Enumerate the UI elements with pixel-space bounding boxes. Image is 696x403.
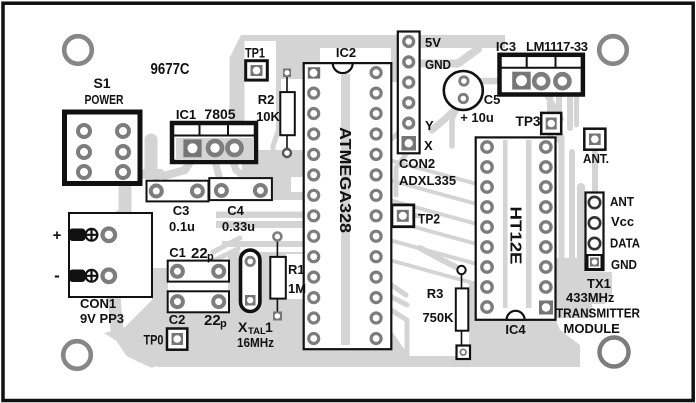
TX1 pad Vcc [589, 217, 600, 228]
wire IC2 to IC4 bundle 2 [382, 178, 484, 206]
wire descending left of R2 [273, 66, 279, 160]
svg-text:433MHz: 433MHz [566, 290, 615, 305]
wire CON2 GND [419, 49, 478, 64]
wire TP3 down [547, 133, 551, 147]
svg-text:R1: R1 [288, 262, 305, 277]
svg-text:Y: Y [425, 118, 434, 133]
wire IC3 diag [547, 95, 561, 119]
svg-text:S1: S1 [93, 75, 110, 91]
svg-text:7805: 7805 [204, 106, 235, 122]
wire into C3 left pad [153, 172, 159, 185]
wire IC3 pad down 4 [574, 95, 579, 125]
resistor R2 [280, 69, 295, 158]
svg-text:+ 10u: + 10u [460, 110, 494, 125]
CON1 crosshair pad 2 [86, 270, 98, 282]
IC1 inner lines [172, 123, 256, 136]
svg-text:-: - [54, 266, 60, 285]
wire R2 bottom to plane [284, 150, 291, 163]
IC1 pad1 square [183, 139, 201, 157]
wire IC3 pad down 3 [567, 95, 573, 128]
wire IC2 bottom bundle to plane 1 [384, 280, 406, 295]
svg-text:MODULE: MODULE [564, 321, 621, 336]
plane bottom band left [104, 268, 303, 367]
CON1 terminal tab + [69, 229, 86, 242]
svg-text:IC4: IC4 [505, 322, 526, 337]
svg-text:10K: 10K [256, 109, 280, 124]
C5 pads [460, 77, 468, 85]
IC4 bottom right square pad [539, 301, 553, 315]
wire IC2 bottom bundle to plane 2 [384, 293, 407, 305]
wire ANT pad to TX1 [592, 150, 598, 196]
svg-text:TP2: TP2 [418, 211, 440, 227]
wire IC2 to IC4 bundle 3 [382, 198, 484, 226]
wire S1 to C1 [125, 210, 143, 266]
wire web to C3 left pad [145, 169, 160, 179]
TX1 pad ANT [589, 197, 600, 208]
wire HT12E right verticals 1 [559, 137, 565, 258]
svg-text:GND: GND [425, 57, 451, 72]
svg-text:IC2: IC2 [336, 45, 356, 60]
capacitor C3 body [147, 181, 209, 202]
capacitor C5 body [444, 71, 483, 110]
wire IC1 pad1 down-left [164, 162, 190, 176]
wire IC1 pad2 to C4 left pad [215, 162, 221, 184]
svg-text:+: + [53, 227, 62, 244]
CON2 pads [404, 37, 414, 128]
wire C5 to IC3 pad1 [470, 78, 514, 85]
svg-text:ANT: ANT [610, 194, 634, 209]
svg-text:R3: R3 [427, 286, 444, 301]
wire band left of TX1 [577, 187, 585, 258]
plane central C [228, 252, 303, 318]
svg-text:p: p [207, 251, 214, 263]
plane stripe B1 [216, 212, 303, 219]
svg-text:1: 1 [265, 319, 273, 335]
plane column between R3 and IC4 [469, 281, 477, 367]
svg-text:1M: 1M [288, 281, 306, 296]
antenna pad ANT. [584, 129, 605, 150]
mounting hole bottom-left [63, 341, 91, 369]
svg-text:X: X [238, 319, 248, 335]
IC2 left pads [309, 88, 319, 343]
IC4 bottom notch [507, 311, 525, 320]
svg-text:C2: C2 [169, 312, 186, 327]
IC3 pad1 square [512, 72, 531, 90]
wire diag near XTAL top 1 [213, 238, 240, 252]
capacitor C1 body [168, 261, 229, 282]
plane column left of R2 [230, 35, 245, 162]
wire diag near XTAL top 2 [211, 249, 238, 262]
TX1 pad DATA [589, 238, 600, 249]
resistor R3 [456, 266, 470, 359]
wire C5 bottom down-left [432, 103, 462, 130]
svg-text:TP1: TP1 [245, 45, 265, 61]
wire IC2 to IC4 bundle 6 [382, 258, 484, 286]
XTAL1 top pad [246, 257, 254, 265]
plane under IC4 [476, 320, 580, 367]
CON1 terminal tab - [69, 270, 86, 283]
test point TP2 [392, 205, 414, 227]
wire TP2 horizontal [380, 213, 420, 218]
capacitor C2 body [168, 291, 229, 312]
IC2 right pads [371, 68, 381, 344]
svg-text:p: p [220, 318, 227, 330]
test point TP1 [246, 61, 268, 80]
svg-text:ATMEGA328: ATMEGA328 [336, 127, 353, 233]
mounting hole bottom-right [600, 338, 629, 367]
wire IC3 pad down 2 [556, 95, 562, 140]
IC2 pin1 square pad [308, 67, 320, 78]
IC2 notch [333, 63, 353, 73]
plane wedge right of IC2 [391, 330, 409, 367]
svg-text:C4: C4 [227, 203, 244, 218]
C2 pads [172, 296, 183, 307]
svg-text:IC3: IC3 [496, 39, 516, 54]
TX1 pad GND square [588, 255, 602, 269]
IC3 inner lines [500, 55, 583, 68]
svg-text:TX1: TX1 [587, 276, 611, 291]
wire IC2 bottom bundle to plane 3 [383, 305, 407, 355]
mounting hole top-right [599, 36, 627, 64]
wire bar left of IC1 [145, 140, 158, 171]
svg-text:9V PP3: 9V PP3 [80, 311, 124, 326]
wire CON2 X down to IC2 [396, 150, 409, 195]
white pocket right of C4 [291, 177, 303, 192]
wire IC2 to IC4 bundle 5 [382, 238, 484, 266]
plane stripe B3 [222, 241, 303, 247]
plane central A [242, 150, 303, 200]
svg-text:CON1: CON1 [80, 296, 116, 311]
CON1 crosshair pad 1 [86, 229, 98, 241]
wire R2 to IC2 pin1 [287, 69, 313, 75]
svg-text:POWER: POWER [85, 92, 124, 107]
IC1 pad2 [208, 141, 222, 155]
wire R3 top diag [420, 248, 458, 268]
svg-text:22: 22 [204, 312, 221, 329]
capacitor C4 body [209, 178, 272, 200]
svg-text:HT12E: HT12E [507, 207, 524, 265]
IC4 HT12E body [476, 137, 556, 319]
IC3 pad3 [555, 74, 569, 88]
switch S1 body [65, 112, 141, 184]
mounting hole top-left [64, 36, 92, 64]
plane blob behind TX1 labels [556, 258, 612, 318]
plane stripe B2 [216, 221, 303, 228]
connector CON1 body [69, 213, 152, 297]
C3 pads [151, 186, 162, 197]
crystal XTAL1 body [241, 250, 260, 311]
C1 pads [172, 266, 183, 277]
IC1 pad3 [228, 141, 242, 155]
wire HT12E right verticals 2 [569, 152, 575, 258]
svg-text:ANT.: ANT. [583, 151, 609, 166]
svg-text:16MHz: 16MHz [237, 335, 274, 350]
switch S1 pads [78, 125, 129, 178]
plane top band [241, 35, 505, 67]
svg-text:22: 22 [191, 245, 208, 262]
regulator IC1 body [172, 123, 256, 162]
IC4 left pads [482, 142, 492, 312]
IC3 pad2 [534, 74, 548, 88]
connector CON2 body [398, 32, 420, 154]
wire CON1 pad2 down [96, 276, 152, 361]
svg-text:X: X [424, 138, 433, 153]
wire IC2 to IC4 bundle 4 [382, 218, 484, 246]
IC2 body [304, 63, 392, 349]
IC1 inner plane [176, 138, 254, 160]
svg-text:TP3: TP3 [516, 113, 541, 129]
svg-text:LM1117-33: LM1117-33 [526, 39, 588, 54]
C4 pads [216, 185, 227, 196]
svg-text:C3: C3 [173, 203, 190, 218]
test point TP0 [167, 329, 187, 350]
wire IC2 to IC4 bundle 1 [382, 158, 484, 186]
svg-text:R2: R2 [258, 92, 275, 107]
white patch behind R1 labels [286, 254, 303, 299]
wire S1 to CON1 [98, 188, 125, 231]
wire C5 to HT12E vertical [452, 109, 457, 146]
regulator IC3 body [500, 55, 583, 95]
svg-text:CON2: CON2 [399, 156, 435, 171]
svg-text:5V: 5V [425, 35, 441, 50]
svg-text:TRANSMITTER: TRANSMITTER [556, 306, 641, 321]
wire stripes inside IC4 [503, 140, 508, 308]
svg-text:0.33u: 0.33u [222, 219, 255, 234]
svg-text:ADXL335: ADXL335 [399, 173, 456, 188]
svg-text:DATA: DATA [610, 236, 641, 251]
svg-text:TP0: TP0 [144, 332, 164, 348]
svg-text:GND: GND [611, 257, 637, 272]
CON2 pad X square [402, 136, 417, 151]
svg-text:Vcc: Vcc [611, 214, 634, 229]
IC4 right pads [541, 142, 551, 292]
CON1 hole pad 2 [103, 270, 116, 283]
CON1 hole pad 1 [103, 229, 116, 242]
svg-text:750K: 750K [422, 310, 454, 325]
plane strip under IC2 [303, 350, 391, 367]
XTAL1 bottom pad [245, 295, 256, 306]
plane block at R2 top [279, 40, 320, 79]
connector TX1 body [586, 193, 604, 271]
wire stripe inside IC2 [341, 74, 350, 345]
resistor R1 [270, 233, 286, 321]
svg-text:IC1: IC1 [176, 107, 196, 122]
wire IC3 pad down 1 [547, 95, 553, 133]
svg-text:9677C: 9677C [151, 61, 190, 78]
wire IC1 pad3 into plane [233, 162, 246, 178]
test point TP3 [541, 113, 561, 134]
wire CON2 Y down [388, 128, 404, 142]
svg-text:C1: C1 [169, 245, 186, 260]
svg-text:0.1u: 0.1u [169, 219, 195, 234]
plane sliver between IC2 and CON2 [391, 35, 398, 82]
plane strip below R3 [409, 356, 469, 367]
